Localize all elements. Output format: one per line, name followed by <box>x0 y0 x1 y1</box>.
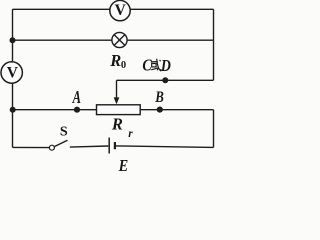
node junction left lower <box>10 107 16 113</box>
slider arrow into rheostat <box>114 80 120 104</box>
svg-text:S: S <box>60 124 68 139</box>
lamp (circle with cross) <box>112 32 127 47</box>
svg-text:E: E <box>118 156 128 171</box>
rheostat R box <box>97 105 141 115</box>
wire slider row <box>117 79 214 81</box>
wire battery to bottom right corner <box>116 146 214 148</box>
wire switch to battery <box>70 146 109 147</box>
svg-text:D: D <box>160 56 171 75</box>
wire right edge upper <box>213 9 215 80</box>
svg-text:B: B <box>154 89 164 106</box>
wire left edge <box>12 9 14 147</box>
svg-text:0: 0 <box>121 60 126 71</box>
switch S <box>49 140 67 150</box>
svg-text:C: C <box>142 55 152 74</box>
wire bottom left to switch <box>13 146 50 148</box>
battery E long plate <box>108 138 110 154</box>
svg-text:R: R <box>111 114 123 133</box>
svg-text:R: R <box>109 51 121 70</box>
node junction left upper <box>10 37 16 43</box>
svg-text:r: r <box>128 128 133 140</box>
svg-text:V: V <box>7 65 19 82</box>
battery E short plate <box>114 142 116 149</box>
label R0 <box>109 51 126 71</box>
glyph huo (Chinese or) drawn as strokes <box>151 59 161 71</box>
label C or D <box>142 55 171 74</box>
wire right edge lower <box>213 110 215 148</box>
svg-text:A: A <box>72 87 81 107</box>
node B dot <box>157 107 163 113</box>
node C/D dot <box>162 77 168 83</box>
voltmeter V left (circle) <box>1 62 22 83</box>
wire lamp row <box>13 39 214 41</box>
wire A-B row <box>13 109 214 111</box>
node A dot <box>74 107 80 113</box>
wire top row <box>13 8 214 10</box>
voltmeter U top (circle) <box>110 0 130 20</box>
svg-text:V: V <box>115 2 127 19</box>
